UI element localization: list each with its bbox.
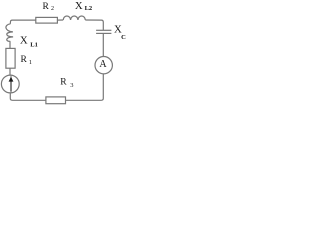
resistor R2: [36, 17, 58, 23]
svg-text:3: 3: [70, 82, 73, 89]
ammeter circle: [95, 56, 112, 73]
wire cap to ammeter: [102, 33, 104, 56]
wire source to R1: [9, 68, 11, 75]
wire through source circle: [10, 75, 12, 92]
wire bottom-left: [10, 93, 46, 100]
resistor R1: [6, 48, 15, 68]
inductor L2: [63, 16, 85, 20]
capacitor C bottom plate: [96, 32, 111, 34]
wire top-left corner: [10, 20, 35, 24]
source circle: [1, 75, 19, 93]
svg-text:1: 1: [29, 59, 32, 66]
svg-text:R: R: [60, 78, 67, 88]
resistor R3: [46, 97, 66, 104]
wire R1 to L1: [9, 41, 11, 48]
svg-text:X: X: [20, 35, 28, 47]
wire R2 to L2: [57, 19, 63, 21]
wire L2 to top-right corner: [85, 20, 103, 30]
svg-text:L2: L2: [85, 5, 93, 12]
inductor L1: [6, 24, 13, 42]
svg-text:A: A: [99, 59, 107, 70]
source arrow: [9, 77, 14, 92]
capacitor C top plate: [96, 29, 111, 31]
svg-text:C: C: [121, 34, 126, 41]
wire ammeter to bottom-right corner: [66, 74, 104, 100]
svg-text:L1: L1: [30, 42, 38, 49]
svg-text:X: X: [75, 0, 83, 12]
svg-text:2: 2: [51, 6, 54, 12]
svg-text:R: R: [43, 2, 50, 12]
svg-text:R: R: [21, 55, 28, 65]
